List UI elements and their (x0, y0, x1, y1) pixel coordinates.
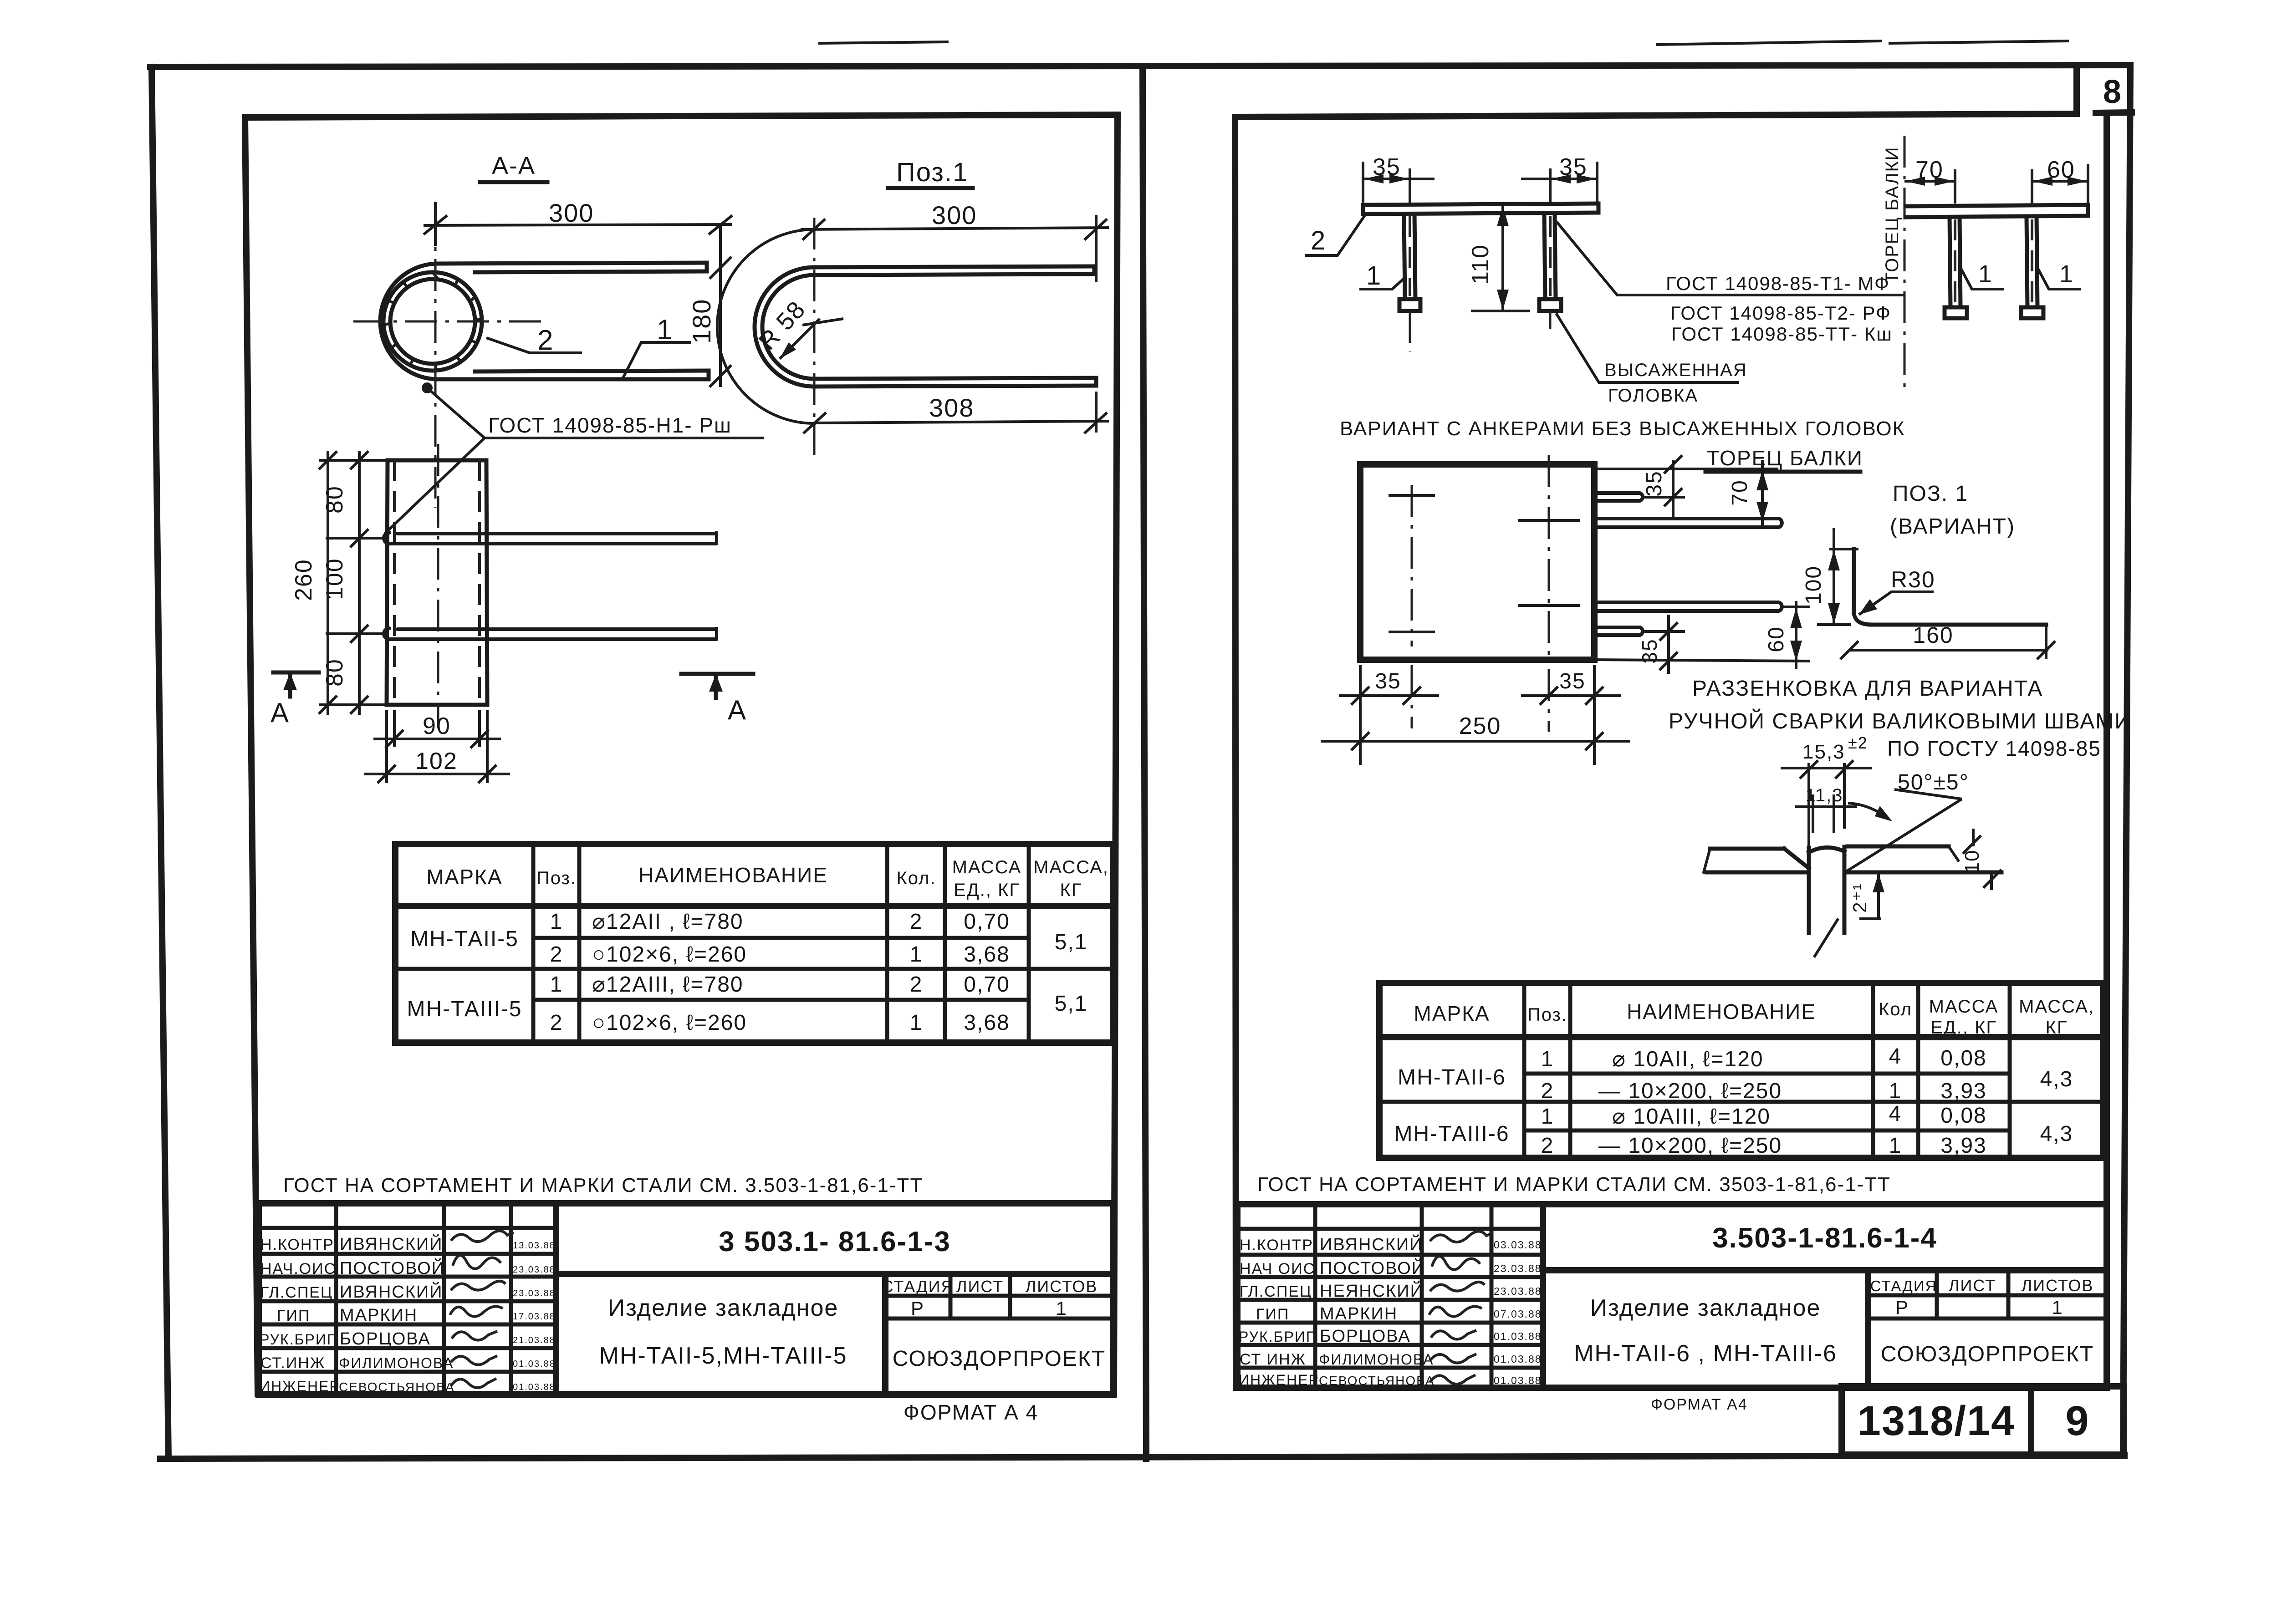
svg-text:8: 8 (2103, 74, 2122, 110)
signature table verticals (334, 1203, 338, 1395)
svg-text:МАССА: МАССА (1929, 997, 1999, 1017)
section A right arrow (714, 676, 718, 698)
dim 60: a3 to plate bottom (1795, 601, 1797, 669)
bottom boxes 1318/14 (1842, 1386, 2031, 1455)
dim 300 left extension (vertical centerline up) (434, 202, 437, 246)
svg-text:5,1: 5,1 (1055, 930, 1088, 954)
section A left arrow (288, 675, 292, 697)
outer top edge line both sheets (150, 65, 2130, 67)
left plate top edge (1710, 847, 1784, 851)
svg-text:110: 110 (1467, 244, 1494, 285)
dim 160 (1849, 649, 2048, 652)
50 deg horizontal tick (1894, 789, 1962, 799)
svg-text:МН-ТАIII-6: МН-ТАIII-6 (1394, 1122, 1509, 1146)
svg-text:ЛИСТОВ: ЛИСТОВ (2022, 1276, 2094, 1295)
dim 70 (1904, 180, 1955, 183)
bar left edge (1807, 848, 1811, 933)
bottom dim 90 : extensions (393, 710, 396, 747)
tube right outline (486, 460, 487, 705)
svg-text:⌀12АII , ℓ=780: ⌀12АII , ℓ=780 (592, 910, 744, 934)
tube wall hatch ticks (385, 272, 481, 370)
anchor 4 shank (2027, 217, 2027, 307)
svg-text:ИВЯНСКИЙ: ИВЯНСКИЙ (340, 1233, 443, 1254)
svg-text:17.03.88: 17.03.88 (513, 1312, 556, 1322)
svg-text:0,70: 0,70 (964, 972, 1010, 997)
plate left cap (1361, 205, 1365, 214)
svg-text:(ВАРИАНТ): (ВАРИАНТ) (1890, 514, 2015, 539)
right plate right end slant (1949, 846, 1958, 860)
column Naimenovanie (885, 844, 889, 1043)
label 1 anchor4 (2037, 268, 2081, 289)
svg-text:ИНЖЕНЕР: ИНЖЕНЕР (1239, 1372, 1319, 1388)
svg-text:⌀12АIII, ℓ=780: ⌀12АIII, ℓ=780 (592, 972, 744, 997)
top bar line 1 (436, 263, 707, 264)
stray scan mark top right (1658, 41, 1881, 45)
svg-text:35: 35 (1638, 638, 1661, 663)
svg-text:2: 2 (910, 972, 923, 997)
svg-text:1: 1 (1889, 1134, 1902, 1158)
svg-text:1318/14: 1318/14 (1858, 1398, 2016, 1444)
anchor 3 head (1945, 307, 1967, 318)
svg-text:1: 1 (550, 972, 563, 997)
column Massa ed (1027, 844, 1031, 1043)
crosshair h-line bottom-right (1520, 604, 1579, 607)
svg-text:ГОСТ 14098-85-Н1- Рш: ГОСТ 14098-85-Н1- Рш (488, 413, 732, 437)
anchor 1 inner dash (1409, 216, 1411, 296)
svg-text:0,08: 0,08 (1940, 1046, 1986, 1070)
tube inner wall dashed left (393, 460, 396, 705)
bar bottom break slash (1815, 920, 1838, 956)
svg-text:ВАРИАНТ С АНКЕРАМИ БЕЗ ВЫС: ВАРИАНТ С АНКЕРАМИ БЕЗ ВЫСАЖЕННЫХ ГОЛОВО… (1340, 417, 1905, 440)
leader label 2 : line from circle (486, 338, 582, 353)
svg-text:10: 10 (1961, 850, 1983, 874)
anchor 2 head (1539, 299, 1561, 311)
svg-text:23.03.88: 23.03.88 (1494, 1285, 1542, 1297)
svg-text:R30: R30 (1891, 567, 1935, 592)
label A-A underline (480, 180, 547, 184)
angle arc (1848, 803, 1889, 820)
svg-text:НЕЯНСКИЙ: НЕЯНСКИЙ (1320, 1280, 1424, 1301)
dim 2+1 vertical (1877, 872, 1880, 919)
tube top edge (388, 458, 486, 463)
section mark A left : line (273, 671, 319, 675)
svg-text:3,68: 3,68 (964, 1011, 1010, 1035)
svg-text:23.03.88: 23.03.88 (1494, 1263, 1542, 1274)
R58 radius leader arrow (780, 319, 820, 359)
left plate bevel (1784, 849, 1809, 868)
svg-text:5,1: 5,1 (1055, 992, 1088, 1016)
bar bend outer arc around tube (380, 264, 438, 379)
row line half 2 (1524, 1129, 2010, 1133)
svg-text:4,3: 4,3 (2040, 1122, 2073, 1146)
R30 leader (1859, 592, 1934, 615)
dim 15,3 extensions (1807, 763, 1810, 851)
svg-text:РУЧНОЙ СВАРКИ ВАЛИКОВЫМИ ШВА: РУЧНОЙ СВАРКИ ВАЛИКОВЫМИ ШВАМИ (1669, 708, 2131, 733)
title block outer (1237, 1204, 2107, 1388)
anchor long a2 (1594, 519, 1782, 527)
svg-text:ФОРМАТ А 4: ФОРМАТ А 4 (904, 1400, 1038, 1424)
svg-text:2: 2 (1541, 1079, 1554, 1103)
svg-text:1: 1 (1541, 1105, 1554, 1129)
svg-text:ГОСТ 14098-85-ТТ- Кш: ГОСТ 14098-85-ТТ- Кш (1671, 323, 1893, 345)
left sheet inner drawing frame (245, 115, 1118, 1394)
svg-text:Н.КОНТР: Н.КОНТР (260, 1236, 334, 1253)
stadia rows (1868, 1293, 2107, 1298)
svg-text:1: 1 (1978, 260, 1993, 288)
anchor 2 inner dash (1549, 216, 1552, 296)
column Marka (531, 844, 536, 1043)
svg-text:ВЫСАЖЕННАЯ: ВЫСАЖЕННАЯ (1604, 360, 1747, 380)
label 1 anchor3 (1960, 268, 2004, 289)
svg-text:180: 180 (687, 299, 716, 344)
svg-text:Р: Р (1895, 1297, 1909, 1318)
svg-text:1: 1 (910, 1011, 923, 1035)
svg-text:35: 35 (1373, 154, 1401, 180)
svg-text:СЕВОСТЬЯНОВА: СЕВОСТЬЯНОВА (1319, 1374, 1435, 1388)
svg-text:21.03.88: 21.03.88 (513, 1335, 556, 1345)
tube inner wall dashed right (478, 460, 481, 705)
stadia verticals (949, 1274, 953, 1319)
signature verticals (1313, 1204, 1317, 1388)
svg-text:03.03.88: 03.03.88 (1494, 1239, 1542, 1251)
circle horizontal centerline (353, 321, 546, 323)
svg-text:СТ ИНЖ: СТ ИНЖ (1240, 1351, 1306, 1368)
svg-text:300: 300 (549, 199, 594, 227)
svg-text:ИНЖЕНЕР: ИНЖЕНЕР (260, 1378, 340, 1395)
plate right cap (1597, 204, 1601, 213)
dim 35 bottom right (1644, 630, 1685, 633)
svg-text:МАРКИН: МАРКИН (1320, 1304, 1398, 1324)
svg-text:⌀ 10АIII, ℓ=120: ⌀ 10АIII, ℓ=120 (1612, 1105, 1771, 1129)
svg-text:МАРКА: МАРКА (426, 865, 502, 889)
title block outer (259, 1203, 1113, 1395)
svg-text:○102×6, ℓ=260: ○102×6, ℓ=260 (592, 942, 747, 967)
right extension line for 300 (1095, 215, 1098, 282)
anchor stub a1 (1594, 493, 1643, 501)
row line full (1379, 1100, 2103, 1104)
svg-text:СТАДИЯ: СТАДИЯ (881, 1277, 954, 1296)
svg-text:ТОРЕЦ БАЛКИ: ТОРЕЦ БАЛКИ (1707, 446, 1863, 470)
svg-text:ФИЛИМОНОВА: ФИЛИМОНОВА (339, 1355, 454, 1371)
tube inner circle (390, 279, 475, 364)
svg-text:А-А: А-А (492, 152, 536, 179)
svg-text:Н.КОНТР: Н.КОНТР (1240, 1237, 1313, 1254)
dim 250 line (1321, 740, 1630, 743)
svg-text:250: 250 (1459, 713, 1501, 739)
top leg end cap (1093, 266, 1097, 274)
svg-text:МАССА,: МАССА, (2019, 997, 2094, 1017)
svg-text:2: 2 (550, 942, 563, 967)
svg-text:1: 1 (2059, 260, 2074, 288)
svg-text:160: 160 (1913, 622, 1953, 648)
anchor bar 1 (upper) (384, 533, 716, 544)
left plate left break (1704, 849, 1710, 872)
vertical centerline through bend apex (813, 218, 816, 455)
svg-text:ЕД., КГ: ЕД., КГ (1930, 1018, 1997, 1038)
svg-text:СОЮЗДОРПРОЕКТ: СОЮЗДОРПРОЕКТ (893, 1347, 1106, 1371)
svg-text:ПО ГОСТУ 14098-85: ПО ГОСТУ 14098-85 (1887, 737, 2101, 760)
svg-text:80: 80 (322, 658, 348, 687)
dim 308 bottom dim line (814, 421, 1109, 423)
crosshair centerlines vertical 1 (1411, 485, 1413, 647)
corner detail: vertical leg (1852, 549, 1856, 613)
svg-text:35: 35 (1559, 669, 1585, 693)
bottom leg bottom line (814, 386, 1096, 387)
svg-text:ЕД., КГ: ЕД., КГ (954, 880, 1020, 900)
svg-text:РУК.БРИГ: РУК.БРИГ (260, 1331, 336, 1348)
table outer box (1379, 983, 2103, 1158)
right sheet inner drawing frame (1235, 66, 2077, 117)
svg-text:— 10×200, ℓ=250: — 10×200, ℓ=250 (1598, 1134, 1782, 1158)
svg-text:Р: Р (911, 1298, 924, 1319)
signature rows (259, 1226, 556, 1230)
column Poz (577, 844, 582, 1043)
anchor 3 shank (1950, 217, 1950, 307)
svg-text:ГИП: ГИП (1256, 1306, 1289, 1323)
svg-text:НАИМЕНОВАНИЕ: НАИМЕНОВАНИЕ (638, 863, 828, 887)
U-bar outer bend arc (755, 267, 814, 387)
svg-text:15,3: 15,3 (1802, 741, 1845, 763)
bottom dim 35 left: dim line (1339, 694, 1439, 697)
svg-text:ГОСТ 14098-85-Т2- РФ: ГОСТ 14098-85-Т2- РФ (1670, 302, 1891, 324)
svg-text:2⁺¹: 2⁺¹ (1849, 883, 1870, 913)
svg-text:A: A (728, 695, 747, 725)
svg-text:3 503.1- 81.6-1-3: 3 503.1- 81.6-1-3 (719, 1226, 951, 1257)
label 1 leader (1359, 277, 1406, 289)
svg-text:Поз.: Поз. (1527, 1005, 1567, 1025)
dim 308 arrows (803, 412, 826, 433)
svg-text:1: 1 (2052, 1297, 2063, 1318)
svg-text:1: 1 (1366, 261, 1382, 290)
GOST leader to lower figure bar (385, 438, 485, 534)
svg-text:A: A (271, 697, 290, 728)
column Kol (943, 844, 947, 1043)
bottom bar end cap (707, 371, 711, 379)
anchor 2 centerline below (1549, 311, 1552, 329)
svg-text:⌀ 10АII, ℓ=120: ⌀ 10АII, ℓ=120 (1612, 1047, 1764, 1071)
svg-text:РАЗЗЕНКОВКА ДЛЯ ВАРИАНТА: РАЗЗЕНКОВКА ДЛЯ ВАРИАНТА (1692, 677, 2043, 701)
dim line 15,3 (1781, 767, 1872, 769)
svg-text:1: 1 (657, 314, 673, 346)
svg-text:01.03.88: 01.03.88 (1494, 1330, 1542, 1342)
svg-text:МН-ТАII-5,МН-ТАIII-5: МН-ТАII-5,МН-ТАIII-5 (599, 1343, 847, 1369)
svg-text:Поз.1: Поз.1 (896, 158, 968, 187)
svg-text:ПОСТОВОЙ: ПОСТОВОЙ (340, 1257, 445, 1278)
svg-text:ФИЛИМОНОВА: ФИЛИМОНОВА (1319, 1351, 1434, 1368)
svg-text:МАРКА: МАРКА (1414, 1002, 1490, 1025)
label underline (888, 186, 973, 190)
header bottom line (395, 903, 1113, 909)
svg-text:100: 100 (1802, 565, 1826, 605)
svg-text:НАЧ ОИС: НАЧ ОИС (1240, 1260, 1315, 1278)
svg-text:2: 2 (1541, 1134, 1554, 1158)
plate rectangle (1360, 464, 1594, 660)
left dims: extension ticks (319, 459, 388, 462)
svg-text:11,3: 11,3 (1806, 785, 1843, 805)
GOST weld leader diagonals (424, 385, 764, 438)
right sheet right outer edge (2123, 65, 2130, 1456)
svg-text:○102×6, ℓ=260: ○102×6, ℓ=260 (592, 1011, 747, 1035)
central divider (sheet boundary) (1143, 67, 1146, 1459)
svg-text:КГ: КГ (1060, 880, 1082, 900)
svg-text:1: 1 (1889, 1079, 1902, 1103)
anchor 1 shank (1404, 214, 1405, 299)
svg-text:ГОСТ 14098-85-Т1- МФ: ГОСТ 14098-85-Т1- МФ (1666, 273, 1890, 294)
svg-text:70: 70 (1728, 479, 1752, 505)
svg-text:НАЧ.ОИС: НАЧ.ОИС (260, 1260, 336, 1278)
svg-text:01.03.88: 01.03.88 (1494, 1353, 1542, 1365)
right extension for 308 (1095, 392, 1098, 433)
svg-text:07.03.88: 07.03.88 (1494, 1308, 1542, 1320)
svg-text:0,08: 0,08 (1940, 1104, 1986, 1128)
svg-text:2: 2 (1311, 226, 1326, 255)
svg-text:МН-ТАII-6 , МН-ТАIII-6: МН-ТАII-6 , МН-ТАIII-6 (1574, 1340, 1837, 1367)
arrows (1364, 174, 1384, 183)
leader label 1 : line from bottom bar (623, 342, 691, 378)
svg-text:100: 100 (322, 558, 348, 600)
weld dot at circle bottom (422, 382, 433, 393)
svg-text:4,3: 4,3 (2040, 1067, 2073, 1091)
svg-text:01.03.88: 01.03.88 (513, 1382, 556, 1392)
anchor stub a4 (1594, 627, 1643, 635)
svg-text:90: 90 (423, 713, 451, 739)
svg-text:60: 60 (2047, 157, 2075, 183)
svg-text:ГЛ.СПЕЦ: ГЛ.СПЕЦ (1240, 1283, 1312, 1300)
anchor 1 centerline below (1409, 311, 1411, 351)
row line half 1 (1524, 1072, 2010, 1076)
svg-text:01.03.88: 01.03.88 (1494, 1375, 1542, 1386)
svg-text:ПОЗ. 1: ПОЗ. 1 (1893, 482, 1968, 506)
svg-text:35: 35 (1642, 470, 1666, 496)
column Naimen (1871, 983, 1875, 1158)
svg-text:СТ.ИНЖ: СТ.ИНЖ (260, 1354, 325, 1372)
left sheet left outer edge (152, 67, 168, 1459)
dim 60 (2032, 180, 2088, 183)
crosshair h-line top-left (1390, 494, 1434, 497)
signature rows (1237, 1227, 1543, 1231)
tube left outline (387, 460, 388, 705)
svg-text:2: 2 (537, 325, 554, 356)
svg-text:ФОРМАТ А4: ФОРМАТ А4 (1651, 1396, 1748, 1413)
U-bar inner bend arc (762, 275, 814, 379)
dim 35 left : dim line (1363, 178, 1435, 180)
table outer box (395, 844, 1113, 1043)
dim line 80/100/80 at x 789 (358, 451, 361, 715)
svg-text:МН-ТАII-5: МН-ТАII-5 (410, 927, 519, 951)
stadia header row line (885, 1294, 1113, 1298)
dim 300 top dim line (801, 228, 1109, 229)
bottom leg top line (814, 378, 1096, 379)
name/stadia divider (1865, 1270, 1871, 1388)
stadia verticals (1935, 1270, 1939, 1319)
plate bottom extension to right (1594, 660, 1810, 661)
dimension 300 top : dim line (424, 224, 732, 225)
svg-text:СОЮЗДОРПРОЕКТ: СОЮЗДОРПРОЕКТ (1881, 1342, 2094, 1366)
svg-text:13.03.88: 13.03.88 (513, 1241, 556, 1251)
column Kol (1916, 983, 1920, 1158)
svg-text:БОРЦОВА: БОРЦОВА (1320, 1327, 1411, 1346)
dim 300 arrows (424, 215, 447, 234)
50 deg leader diagonal (1845, 799, 1962, 872)
svg-text:23.03.88: 23.03.88 (513, 1288, 556, 1298)
section mark A right : line (681, 672, 753, 676)
svg-text:ГОСТ НА СОРТАМЕНТ И МАРКИ: ГОСТ НА СОРТАМЕНТ И МАРКИ СТАЛИ СМ. 3.50… (283, 1174, 923, 1196)
svg-text:Поз.: Поз. (536, 868, 577, 888)
anchor long a3 (1594, 602, 1782, 611)
column Poz (1568, 983, 1572, 1158)
svg-text:60: 60 (1764, 626, 1788, 652)
dim 10 right: ticks (1963, 835, 1981, 854)
bar top cap (1809, 847, 1844, 852)
dim 35 top right: extension + line (1644, 496, 1685, 499)
dim 180 arrows (710, 257, 731, 279)
svg-text:2: 2 (910, 910, 923, 934)
svg-text:МАССА: МАССА (952, 857, 1022, 877)
dim 180 vertical line at right (719, 224, 722, 387)
corner detail fillet + horizontal leg (1854, 613, 2046, 625)
corner 100 dim (1833, 528, 1835, 625)
svg-text:±2: ±2 (1848, 733, 1868, 752)
page number 8 box (2096, 112, 2132, 113)
big sweep arc around bend (717, 229, 814, 423)
signatures squiggles (1429, 1231, 1493, 1384)
circle vertical centerline (434, 207, 437, 508)
label 2 leader (1305, 215, 1365, 255)
top leg top line (814, 266, 1094, 267)
bottom dim 35 right (1521, 694, 1621, 697)
right plate top edge (1848, 845, 1949, 849)
svg-text:ИВЯНСКИЙ: ИВЯНСКИЙ (1320, 1234, 1423, 1254)
svg-text:1: 1 (1541, 1047, 1554, 1071)
svg-text:308: 308 (929, 393, 974, 422)
dim 35 right : dim line (1521, 178, 1598, 180)
dim 110 vertical (1501, 205, 1504, 311)
svg-text:2: 2 (550, 1011, 563, 1035)
svg-text:— 10×200, ℓ=250: — 10×200, ℓ=250 (1598, 1079, 1782, 1103)
svg-text:ГОЛОВКА: ГОЛОВКА (1608, 386, 1698, 406)
svg-text:МН-ТАIII-5: МН-ТАIII-5 (407, 997, 522, 1021)
dim line 260 at x 720 (327, 451, 329, 715)
tube outer circle (pos.2 section) (383, 272, 482, 371)
svg-text:35: 35 (1375, 669, 1401, 693)
top bar line 2 (475, 271, 707, 272)
anchor 2 shank (1544, 214, 1545, 299)
svg-text:МАССА,: МАССА, (1033, 857, 1109, 877)
crosshair h-line top-right (1520, 519, 1579, 522)
svg-text:ТОРЕЦ БАЛКИ: ТОРЕЦ БАЛКИ (1882, 146, 1902, 283)
svg-text:1: 1 (550, 910, 563, 934)
plate right part top/bottom (1905, 205, 2088, 206)
top bar end cap (705, 263, 709, 271)
svg-text:БОРЦОВА: БОРЦОВА (340, 1329, 431, 1349)
tube bottom edge (387, 703, 487, 707)
svg-text:КГ: КГ (2046, 1018, 2068, 1038)
svg-text:Кол: Кол (1879, 999, 1912, 1019)
svg-text:260: 260 (291, 559, 317, 601)
bar right edge (1843, 847, 1847, 933)
svg-text:ПОСТОВОЙ: ПОСТОВОЙ (1320, 1257, 1425, 1278)
outer bottom edge line both sheets (160, 1456, 2124, 1459)
svg-text:МАРКИН: МАРКИН (340, 1306, 418, 1325)
svg-text:70: 70 (1915, 157, 1944, 183)
bottom dim 102 : extensions (385, 710, 388, 783)
anchor 1 head (1399, 299, 1420, 311)
svg-text:ИВЯНСКИЙ: ИВЯНСКИЙ (340, 1281, 443, 1302)
name/stadia divider (882, 1274, 888, 1395)
svg-text:35: 35 (1559, 154, 1588, 180)
svg-text:Изделие закладное: Изделие закладное (1590, 1295, 1821, 1321)
plate left part : top line (1363, 204, 1598, 205)
